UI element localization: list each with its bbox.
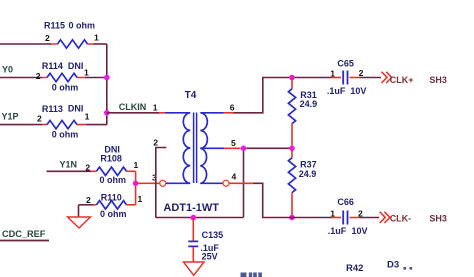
wire R110 pin1 up to junction [135, 183, 137, 205]
transformer T4 [163, 90, 224, 214]
svg-text:.1uF: .1uF [328, 226, 347, 236]
svg-text:1: 1 [84, 68, 89, 78]
resistor R37 [288, 151, 316, 216]
svg-text:0 ohm: 0 ohm [100, 209, 127, 219]
svg-text:Y0: Y0 [2, 65, 13, 75]
wire vertical bus x=106.8 [106, 44, 108, 125]
resistor R115 [44, 21, 99, 49]
svg-text:2: 2 [36, 71, 41, 81]
wire CDC_REF stub [0, 240, 49, 242]
svg-text:1: 1 [138, 194, 143, 204]
capacitor C135 [188, 218, 223, 262]
resistor R41 partial label (clipped) [241, 273, 262, 277]
svg-text:SH3: SH3 [429, 75, 447, 85]
svg-text:SH3: SH3 [429, 214, 447, 224]
wire Y1N net into R108 pin2 [47, 170, 92, 172]
svg-text:1: 1 [94, 33, 99, 43]
svg-text:Y1P: Y1P [2, 112, 19, 122]
svg-text:CLK+: CLK+ [390, 75, 414, 85]
resistor R110 [86, 193, 143, 219]
pin 6 lead of T4 [224, 112, 234, 114]
svg-text:2: 2 [45, 33, 50, 43]
svg-text:C66: C66 [337, 197, 354, 207]
junction dot R37/bottom rail [289, 215, 295, 221]
junction dot R108/R110/T4 pin3 [133, 181, 139, 187]
svg-text:DNI: DNI [68, 104, 84, 114]
ground symbol at R110 [68, 205, 91, 228]
pin 1 lead of T4 [159, 112, 165, 114]
svg-text:R108: R108 [100, 153, 122, 163]
wire bottom rail of center-tap box [156, 217, 244, 219]
svg-text:24.9: 24.9 [300, 99, 318, 109]
svg-text:C65: C65 [337, 58, 354, 68]
wire junction to T4 pin3 [136, 182, 160, 184]
svg-text:.1uF: .1uF [327, 86, 346, 96]
junction dot top rail / R31 [289, 75, 295, 81]
junction dot CLKIN node [104, 110, 110, 116]
svg-text:5: 5 [231, 138, 236, 148]
svg-text:D3: D3 [387, 259, 399, 270]
wire Y0 net into R114 pin2 [0, 77, 42, 79]
svg-text:T4: T4 [185, 90, 197, 101]
wire Y2 net into R115 pin2 [0, 43, 51, 45]
svg-text:R113: R113 [42, 104, 63, 114]
svg-text:2: 2 [37, 114, 42, 124]
resistor R114 [36, 61, 89, 93]
offpage connector CLK- [380, 212, 412, 224]
wire pin4 corner down to rail [253, 183, 331, 217]
svg-text:CLKIN: CLKIN [119, 102, 147, 112]
capacitor C65 [327, 58, 367, 96]
svg-text:R114: R114 [42, 61, 63, 71]
svg-text:DNI: DNI [68, 61, 84, 71]
junction dot T4 pin5 / box [241, 146, 247, 152]
pin 2 stub of T4 [156, 148, 167, 218]
ground symbol at C135 [184, 262, 205, 275]
svg-text:0 ohm: 0 ohm [52, 130, 79, 140]
svg-text:0 ohm: 0 ohm [69, 21, 96, 31]
resistor R31 [288, 78, 317, 146]
svg-text:1: 1 [153, 103, 158, 113]
svg-text:C135: C135 [202, 230, 224, 240]
svg-text:R42: R42 [346, 263, 363, 274]
resistor R113 [37, 104, 90, 140]
svg-text:R37: R37 [300, 160, 317, 170]
core [194, 113, 197, 184]
wire R113 pin1 to bus corner up to CLKIN node [86, 124, 107, 126]
wire right side of center-tap box [243, 148, 245, 217]
partial marks right of D3 [404, 267, 407, 270]
svg-text:24.9: 24.9 [299, 169, 317, 179]
resistor R108 [85, 144, 138, 185]
pin 4 circle of T4 [223, 180, 229, 186]
svg-text:4: 4 [232, 171, 237, 181]
svg-text:0 ohm: 0 ohm [52, 83, 79, 93]
offpage connector CLK+ [382, 72, 414, 85]
wire Y1P net into R113 pin2 [0, 124, 42, 126]
svg-text:R110: R110 [101, 193, 122, 203]
capacitor C66 [328, 197, 368, 236]
wire pin4 to bottom rail [230, 182, 254, 184]
svg-text:2: 2 [86, 195, 91, 205]
wire R108 pin1 down to junction [135, 171, 137, 183]
svg-text:1: 1 [330, 209, 335, 219]
svg-text:2: 2 [359, 68, 364, 78]
svg-text:CDC_REF: CDC_REF [2, 229, 46, 239]
wire C66 to CLK- offpage [360, 217, 380, 219]
svg-text:10V: 10V [352, 226, 368, 236]
wire pin6 to top rail [233, 78, 331, 113]
svg-text:1: 1 [330, 69, 335, 79]
wire pin5 junction to R31/R37 node [246, 147, 292, 149]
svg-text:25V: 25V [202, 252, 218, 262]
svg-text:CLK-: CLK- [390, 214, 412, 224]
svg-text:10V: 10V [350, 86, 366, 96]
svg-text:R115: R115 [44, 21, 65, 31]
svg-text:6: 6 [230, 103, 235, 113]
wire ground to R110 pin2 [79, 204, 94, 206]
svg-text:1: 1 [85, 112, 90, 122]
right winding upper [200, 113, 224, 149]
pin 5 lead of T4 [224, 147, 241, 149]
junction dot C135 tap [191, 215, 197, 221]
wire R115 to bus corner [94, 43, 107, 45]
svg-text:0 ohm: 0 ohm [100, 175, 127, 185]
wire R114 pin1 to bus [85, 77, 107, 79]
junction dot R114/bus [104, 75, 110, 81]
left winding [165, 113, 190, 184]
right winding lower [200, 148, 222, 183]
svg-text:1: 1 [134, 160, 139, 170]
wire CLKIN to T4 pin1 [107, 112, 159, 114]
svg-text:2: 2 [153, 137, 158, 147]
svg-text:ADT1-1WT: ADT1-1WT [163, 202, 219, 214]
svg-text:Y1N: Y1N [60, 160, 78, 170]
wire C65 to CLK+ offpage [360, 77, 382, 79]
svg-text:2: 2 [85, 162, 90, 172]
pin 3 circle of T4 [160, 180, 166, 186]
junction dot R31/R37/pin5 [289, 146, 295, 152]
